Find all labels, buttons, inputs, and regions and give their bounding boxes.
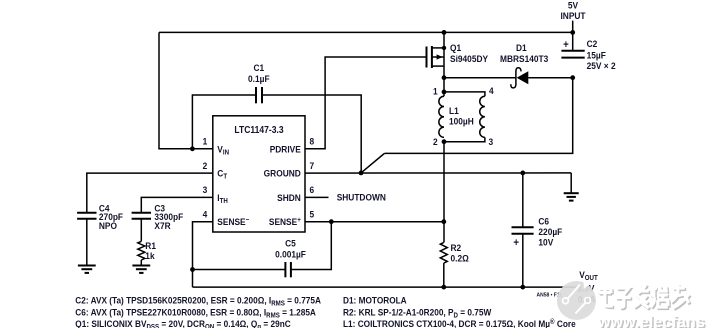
node pin5/C5 junction <box>329 219 334 224</box>
svg-text:SHDN: SHDN <box>277 192 301 203</box>
svg-text:D1: D1 <box>516 43 527 54</box>
label L1 pin numbers <box>433 86 494 147</box>
svg-text:D1: MOTOROLA: D1: MOTOROLA <box>343 295 407 306</box>
watermark logo circle <box>557 281 596 320</box>
ground right symbol <box>564 193 579 200</box>
label L1 value <box>449 105 474 126</box>
svg-text:+: + <box>563 40 569 52</box>
svg-text:Si9405DY: Si9405DY <box>450 53 488 64</box>
node R2/bottom rail junction <box>441 285 446 290</box>
node SENSE+/R2 junction <box>441 219 446 224</box>
label C2 value <box>587 39 616 72</box>
svg-text:4: 4 <box>203 209 208 220</box>
capacitor C1 <box>256 87 262 103</box>
wire pin 6 SHDN stub <box>305 196 329 198</box>
wire pin 7 GROUND rail <box>305 172 571 174</box>
wire D1 right leg <box>528 77 572 79</box>
node C6 top junction <box>520 171 525 176</box>
label C1 value <box>248 63 270 84</box>
watermark url <box>597 314 706 332</box>
capacitor C3 <box>132 213 151 219</box>
svg-text:3: 3 <box>489 136 494 147</box>
svg-text:7: 7 <box>310 160 315 171</box>
svg-text:+: + <box>513 238 519 250</box>
svg-text:Q1: Q1 <box>450 43 461 54</box>
ground under C4 <box>78 266 96 273</box>
wire left vertical from rail to VIN <box>159 32 213 148</box>
svg-text:5V: 5V <box>568 0 578 11</box>
capacitor C2 <box>561 51 584 58</box>
svg-text:PDRIVE: PDRIVE <box>270 144 301 155</box>
wire R2 to bottom rail <box>443 263 445 287</box>
svg-text:4: 4 <box>489 86 494 97</box>
capacitor C4 <box>77 213 96 219</box>
wire C5 right leg up to SENSE+ <box>291 222 331 270</box>
svg-text:C5: C5 <box>285 238 296 249</box>
wire mid ground rail to D1/C2 <box>384 78 572 154</box>
resistor R1 <box>138 241 145 260</box>
node C6/bottom rail junction <box>520 285 525 290</box>
svg-text:SHUTDOWN: SHUTDOWN <box>337 192 386 203</box>
svg-text:2: 2 <box>433 136 438 147</box>
svg-text:5: 5 <box>310 209 315 220</box>
transistor Q1 Si9405DY <box>427 32 447 96</box>
capacitor C5 <box>285 262 291 277</box>
ground under R1 <box>132 266 150 273</box>
svg-text:NPO: NPO <box>99 221 117 232</box>
wire R1 to ground <box>140 260 142 266</box>
svg-text:220µF: 220µF <box>538 227 562 238</box>
label C4 value <box>99 203 124 231</box>
diode D1 MBRS140T3 <box>511 68 529 88</box>
svg-text:R2: R2 <box>451 243 462 254</box>
svg-text:C6: C6 <box>538 216 549 227</box>
node C1-left/VIN junction <box>190 146 195 151</box>
op-amp U1 LTC1147-3.3 box <box>213 116 305 232</box>
label C6 value <box>538 216 562 248</box>
svg-text:1k: 1k <box>145 250 154 261</box>
wire bottom VOUT rail <box>193 286 578 288</box>
svg-text:2: 2 <box>203 160 208 171</box>
resistor R2 <box>440 242 447 263</box>
wire C5 left leg <box>193 269 286 271</box>
wire D1 left leg <box>444 77 516 79</box>
svg-text:INPUT: INPUT <box>560 10 586 21</box>
svg-text:L1: COILTRONICS CTX100-4, DCR: L1: COILTRONICS CTX100-4, DCR = 0.175Ω, … <box>343 318 576 328</box>
node 5V input junction <box>570 30 575 35</box>
label Q1 <box>450 43 488 64</box>
node L1 pin2 junction <box>442 139 447 144</box>
wire pin 8 PDRIVE to Q1 gate <box>305 57 427 149</box>
node top rail / Q1 junction <box>442 30 447 35</box>
svg-text:C2: C2 <box>587 39 598 50</box>
svg-text:0.001µF: 0.001µF <box>275 249 306 260</box>
svg-text:L1: L1 <box>449 105 459 116</box>
svg-text:SENSE+: SENSE+ <box>269 217 301 228</box>
wire C1 left leg <box>192 95 256 149</box>
svg-text:www.elecfans.com: www.elecfans.com <box>597 314 706 328</box>
wire pin 3 ITH to C3 <box>141 197 213 212</box>
node Q1 drain / D1 junction <box>442 75 447 80</box>
svg-text:1: 1 <box>433 86 438 97</box>
svg-text:C1: C1 <box>253 63 264 74</box>
wire C6 top leg <box>522 173 524 227</box>
svg-text:25V × 2: 25V × 2 <box>587 61 616 72</box>
label 5V INPUT <box>560 0 586 21</box>
wire pin 2 CT to C4 <box>87 173 213 213</box>
svg-text:1: 1 <box>203 136 208 147</box>
node SENSE-/C5 junction <box>190 267 195 272</box>
svg-text:LTC1147-3.3: LTC1147-3.3 <box>234 124 283 135</box>
wire 5V input to C2 <box>572 21 574 51</box>
wire pin 5 SENSE+ to R2 <box>305 221 444 223</box>
inductor L1 100uH <box>439 92 485 142</box>
svg-text:GROUND: GROUND <box>264 168 302 179</box>
wire C3 to R1 <box>140 219 142 242</box>
node L1 pin1 junction <box>442 90 447 95</box>
capacitor C6 <box>512 227 534 234</box>
label VOUT terminal <box>577 270 597 305</box>
svg-text:10V: 10V <box>538 237 553 248</box>
svg-text:100µH: 100µH <box>449 116 474 127</box>
svg-text:6: 6 <box>310 185 315 196</box>
wire C4 to ground <box>86 219 88 266</box>
svg-text:X7R: X7R <box>154 221 171 232</box>
label C5 value <box>275 238 306 259</box>
wire C1 right leg to ground junction <box>262 95 361 173</box>
wire L1 output down through rails <box>443 142 445 243</box>
svg-text:SENSE−: SENSE− <box>217 217 249 228</box>
wire pin 4 SENSE- down to bottom rail <box>193 222 213 287</box>
svg-text:3: 3 <box>203 185 208 196</box>
label C3 value <box>154 203 183 231</box>
label R2 value <box>451 243 469 264</box>
wire C6 bottom leg <box>522 234 524 287</box>
wire top 5V rail <box>159 31 573 33</box>
svg-text:0.1µF: 0.1µF <box>248 73 270 84</box>
svg-text:15µF: 15µF <box>587 50 607 61</box>
node ground/C1 junction <box>359 171 364 176</box>
wire ground stem right <box>570 173 572 193</box>
svg-text:MBRS140T3: MBRS140T3 <box>500 53 548 64</box>
svg-text:0.2Ω: 0.2Ω <box>451 253 469 264</box>
label R1 value <box>145 241 156 261</box>
label D1 <box>500 43 548 64</box>
watermark chinese characters <box>599 284 690 310</box>
node D1/C2 junction <box>570 75 575 80</box>
wire diagonal ground jog <box>361 153 384 173</box>
svg-text:8: 8 <box>310 136 315 147</box>
